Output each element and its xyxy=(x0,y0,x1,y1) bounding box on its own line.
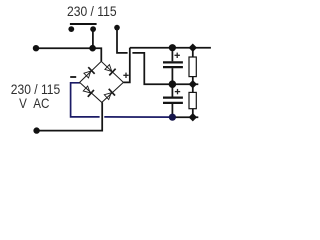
svg-text:V AC: V AC xyxy=(19,95,49,111)
svg-text:230 / 115: 230 / 115 xyxy=(67,3,117,19)
